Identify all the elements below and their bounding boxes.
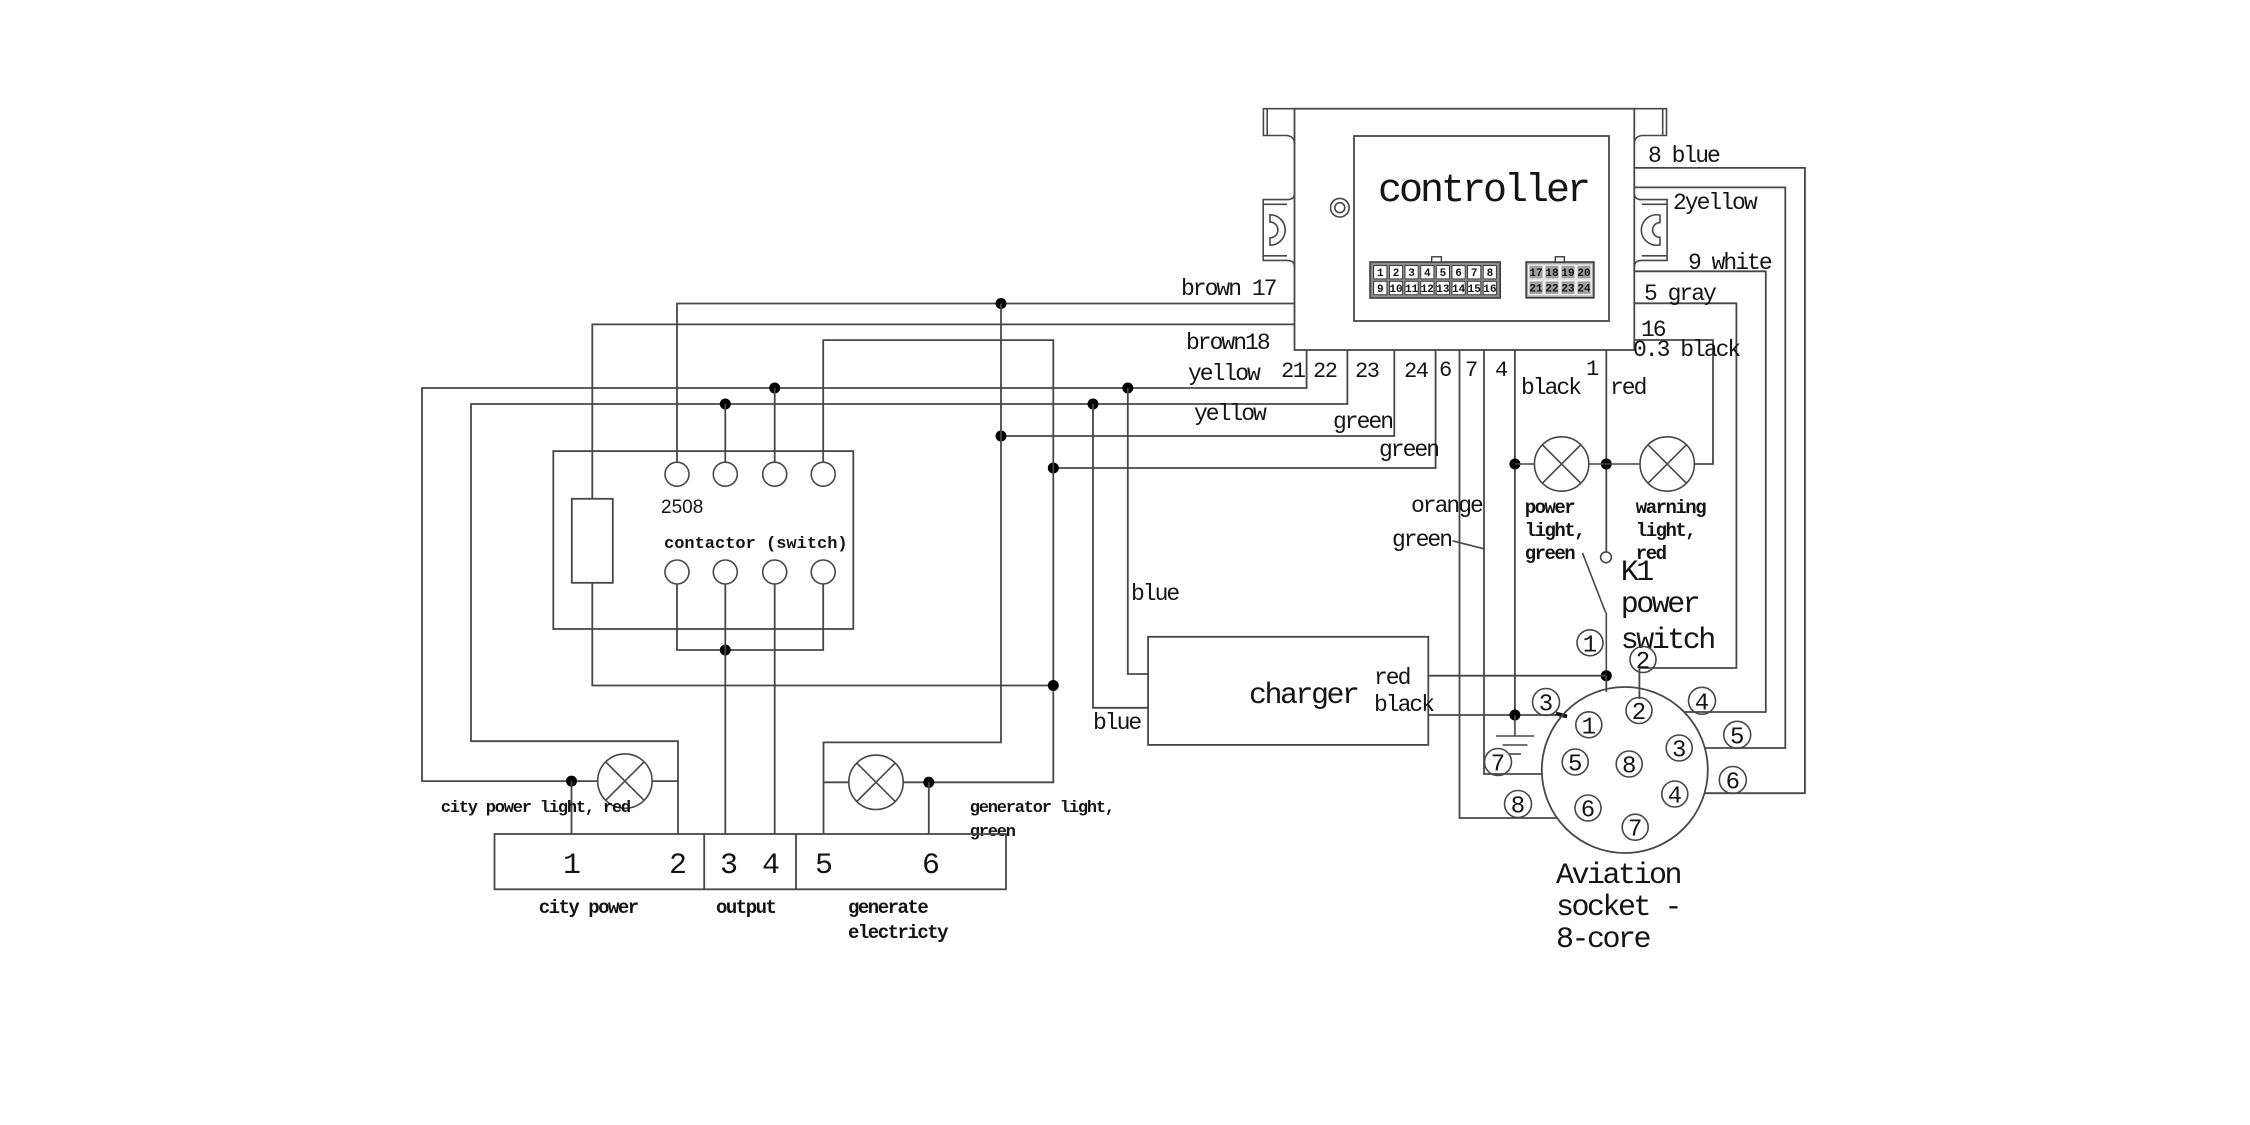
svg-text:5 gray: 5 gray <box>1644 281 1717 307</box>
wire yellow pin22 : controller to contactor c2 / terminal 2 <box>471 350 1347 834</box>
wire black pin4 : controller to ground <box>1514 350 1516 715</box>
svg-text:blue: blue <box>1131 581 1179 607</box>
svg-text:10: 10 <box>1389 284 1402 296</box>
svg-text:power: power <box>1621 588 1699 622</box>
svg-text:yellow: yellow <box>1188 361 1261 387</box>
svg-text:K1: K1 <box>1621 556 1654 590</box>
wire 9 white pin9 : controller to socket ext 4 <box>1634 271 1766 712</box>
contactor coil 2508 <box>572 499 613 583</box>
generator lamp <box>849 755 903 809</box>
svg-text:controller: controller <box>1378 169 1588 214</box>
wire 8 blue pin8 : controller to socket ext 6 <box>1634 168 1805 793</box>
svg-text:18: 18 <box>1545 268 1559 280</box>
controller mounting tab top-right <box>1634 109 1666 144</box>
svg-text:5: 5 <box>815 849 833 883</box>
svg-text:6: 6 <box>922 849 940 883</box>
wire red pin1 : controller to switch K1 <box>1605 350 1607 552</box>
svg-text:7: 7 <box>1628 817 1642 844</box>
svg-text:green: green <box>1525 543 1576 565</box>
switch terminal circled 2 <box>1630 647 1656 677</box>
svg-text:11: 11 <box>1405 284 1419 296</box>
svg-text:6: 6 <box>1726 770 1740 797</box>
wire generator lamp left branch <box>824 781 849 783</box>
junction dot green2/contactor-c4 branch <box>1048 463 1059 474</box>
svg-text:5: 5 <box>1730 724 1744 751</box>
svg-text:green: green <box>1379 437 1438 463</box>
svg-text:3: 3 <box>1408 268 1415 280</box>
svg-text:orange: orange <box>1411 493 1483 519</box>
svg-text:contactor (switch): contactor (switch) <box>664 535 848 554</box>
svg-text:generator light,: generator light, <box>970 799 1114 818</box>
junction dot green1/charger-branch <box>996 431 1007 442</box>
svg-text:6: 6 <box>1581 798 1595 825</box>
svg-text:1: 1 <box>1583 632 1597 659</box>
socket pin 5 <box>1562 749 1588 779</box>
svg-text:16: 16 <box>1483 284 1496 296</box>
wire blue2 : yellow2 junction to charger <box>1093 404 1148 708</box>
socket external circled 5 <box>1724 721 1751 751</box>
wire pin16 0.3 black : controller to warning light <box>1634 340 1713 464</box>
svg-text:7: 7 <box>1471 268 1478 280</box>
junction dot city lamp / terminal 1 <box>566 776 577 787</box>
svg-text:8: 8 <box>1487 268 1494 280</box>
svg-text:5: 5 <box>1568 752 1582 779</box>
power light lamp <box>1515 437 1589 491</box>
svg-text:3: 3 <box>720 849 738 883</box>
svg-text:1: 1 <box>1377 268 1384 280</box>
controller connector J2 pins 17-24 <box>1526 257 1594 298</box>
socket pin 4 <box>1662 781 1688 811</box>
svg-text:4: 4 <box>1495 358 1508 383</box>
wire green pin7 : controller to socket ext 7 <box>1484 350 1542 774</box>
contactor bottom contacts <box>665 560 835 584</box>
wire 5 gray pin5 : controller to switch K1 terminal 2 and socket pin 2 <box>1634 303 1736 691</box>
wire contactor c2 bottom to terminal 3 <box>724 584 726 834</box>
wire city lamp right to terminal 2 riser <box>652 780 678 782</box>
contactor top contacts <box>665 462 835 486</box>
svg-text:light,: light, <box>1525 520 1584 542</box>
junction dot yellow1/contactor c3 <box>769 383 780 394</box>
svg-text:2: 2 <box>1636 649 1650 676</box>
svg-text:yellow: yellow <box>1194 401 1267 427</box>
wire terminal 1 drop <box>571 781 573 834</box>
wire contactor bottom bridge c1-c4 <box>677 584 823 650</box>
svg-text:7: 7 <box>1491 752 1505 779</box>
socket external circled 4 <box>1689 687 1716 717</box>
svg-text:20: 20 <box>1577 268 1590 280</box>
socket external circled 3 <box>1533 689 1560 719</box>
contactor box <box>553 451 853 629</box>
junction dot brown17 / charger-branch <box>996 298 1007 309</box>
svg-text:3: 3 <box>1539 692 1553 719</box>
svg-text:21: 21 <box>1281 359 1306 384</box>
svg-text:socket -: socket - <box>1556 891 1680 925</box>
wire socket pin2 stub <box>1638 691 1640 699</box>
socket external circled 6 <box>1719 767 1746 797</box>
wire charger red output <box>1428 675 1606 677</box>
svg-text:charger: charger <box>1249 679 1358 713</box>
charger box <box>1148 637 1428 745</box>
svg-text:22: 22 <box>1545 284 1558 296</box>
terminal strip <box>495 834 1007 889</box>
svg-text:14: 14 <box>1452 284 1466 296</box>
svg-text:19: 19 <box>1561 268 1574 280</box>
svg-text:13: 13 <box>1436 284 1450 296</box>
city power lamp <box>598 754 652 808</box>
svg-text:switch: switch <box>1621 624 1715 658</box>
svg-text:1: 1 <box>1586 357 1599 382</box>
svg-text:24: 24 <box>1577 284 1591 296</box>
wire contactor c2 stub <box>724 404 726 462</box>
wire contactor c3 stub <box>774 388 776 462</box>
controller mounting tab top-left <box>1263 109 1294 144</box>
svg-text:black: black <box>1374 692 1434 718</box>
svg-text:electricty: electricty <box>848 922 949 944</box>
socket pin 8 <box>1616 751 1642 781</box>
svg-text:red: red <box>1610 375 1646 401</box>
svg-text:2: 2 <box>1393 268 1400 280</box>
wire 2 yellow pin2 : controller to socket ext 5 <box>1634 187 1785 748</box>
wire charger black output to socket <box>1428 714 1556 716</box>
svg-text:green: green <box>1333 409 1392 435</box>
svg-text:2508: 2508 <box>661 497 703 518</box>
svg-text:2yellow: 2yellow <box>1673 190 1758 216</box>
svg-text:city power: city power <box>539 897 639 919</box>
svg-text:17: 17 <box>1529 268 1542 280</box>
wire brown 18 : contactor coil top to controller <box>592 324 1294 498</box>
svg-text:output: output <box>716 897 776 919</box>
junction dot charger black / ground <box>1509 710 1520 721</box>
junction dot power light right <box>1601 459 1612 470</box>
warning light lamp <box>1640 437 1694 491</box>
svg-text:1: 1 <box>1582 714 1596 741</box>
aviation socket body <box>1542 687 1708 853</box>
svg-text:green: green <box>1392 527 1451 553</box>
socket pin 6 <box>1575 795 1601 825</box>
junction dot K1 output / charger red <box>1601 670 1612 681</box>
svg-text:generate: generate <box>848 897 928 919</box>
svg-text:red: red <box>1374 665 1410 691</box>
svg-text:brown18: brown18 <box>1186 330 1270 356</box>
wire K1 output to socket edge <box>1605 676 1607 692</box>
svg-text:23: 23 <box>1561 284 1575 296</box>
svg-text:8 blue: 8 blue <box>1648 143 1720 169</box>
svg-text:4: 4 <box>1424 268 1431 280</box>
wire yellow pin21 : controller to contactor c3 / city lamp <box>422 350 1307 781</box>
wire green pin24 <box>1053 350 1435 468</box>
controller mounting tab mid-left <box>1263 193 1294 267</box>
socket pin 1 <box>1576 712 1602 742</box>
wire blue1 : yellow1 junction to charger <box>1128 388 1148 674</box>
wire power light to warning light <box>1589 463 1640 465</box>
socket external circled 7 <box>1485 749 1512 779</box>
svg-text:brown 17: brown 17 <box>1181 276 1276 302</box>
wire brown 17 : contactor contact A1 up to controller <box>677 304 1295 463</box>
svg-text:9: 9 <box>1377 284 1384 296</box>
controller U1 outer box <box>1295 109 1635 350</box>
junction dot coil-bottom / c4 branch <box>1048 680 1059 691</box>
svg-text:6: 6 <box>1439 358 1451 383</box>
svg-text:4: 4 <box>762 849 780 883</box>
junction dot power light left <box>1509 459 1520 470</box>
svg-text:24: 24 <box>1404 359 1429 384</box>
svg-text:black: black <box>1521 375 1581 401</box>
svg-text:power: power <box>1525 497 1576 519</box>
controller connector J1 pins 1-16 <box>1370 257 1500 298</box>
svg-text:2: 2 <box>1632 700 1646 727</box>
wire generator lamp right segment <box>903 781 929 783</box>
wire contactor c3 bottom to terminal 4 <box>774 584 776 834</box>
svg-text:warning: warning <box>1636 497 1706 519</box>
junction dot yellow1/blue1 <box>1122 383 1133 394</box>
junction dot yellow2/contactor c2 <box>720 399 731 410</box>
controller mounting tab mid-right <box>1634 193 1667 267</box>
svg-text:green: green <box>970 823 1016 842</box>
svg-text:8-core: 8-core <box>1556 923 1651 957</box>
socket pin 3 <box>1666 735 1692 765</box>
controller indicator circle <box>1331 198 1350 217</box>
switch K1 <box>1583 552 1612 676</box>
junction dot yellow2/blue2 <box>1088 399 1099 410</box>
svg-text:2: 2 <box>669 849 687 883</box>
svg-text:5: 5 <box>1440 268 1447 280</box>
wire contactor c4 riser to generator branch <box>823 340 1053 782</box>
wire terminal 6 drop <box>928 782 930 834</box>
svg-text:21: 21 <box>1529 284 1543 296</box>
ground symbol <box>1496 715 1534 754</box>
svg-text:city power light, red: city power light, red <box>441 799 631 818</box>
svg-text:23: 23 <box>1355 359 1379 384</box>
wire coil bottom branch <box>592 583 1053 686</box>
svg-text:4: 4 <box>1695 690 1709 717</box>
wire green pin23 <box>1001 350 1394 436</box>
wire charger-branch x=1001 : brown17 junction to terminal 5 <box>824 304 1002 835</box>
svg-text:22: 22 <box>1313 359 1337 384</box>
socket pin 7 <box>1622 814 1648 844</box>
svg-text:light,: light, <box>1636 520 1695 542</box>
junction dot generator lamp right <box>923 777 934 788</box>
svg-text:15: 15 <box>1468 284 1482 296</box>
svg-text:blue: blue <box>1093 710 1141 736</box>
svg-text:Aviation: Aviation <box>1556 859 1681 893</box>
socket external circled 8 <box>1505 791 1532 821</box>
svg-text:4: 4 <box>1668 784 1682 811</box>
wire orange pin6 : controller to socket ext 8 <box>1460 350 1558 818</box>
leader line green pin7 <box>1453 541 1485 549</box>
svg-text:8: 8 <box>1511 794 1525 821</box>
switch terminal circled 1 <box>1577 630 1603 660</box>
junction dot bridge / c2 bottom <box>720 645 731 656</box>
svg-text:6: 6 <box>1455 268 1462 280</box>
socket pin 2 <box>1626 698 1652 728</box>
svg-text:3: 3 <box>1672 738 1686 765</box>
svg-text:1: 1 <box>563 849 581 883</box>
svg-text:0.3 black: 0.3 black <box>1633 337 1740 363</box>
svg-text:7: 7 <box>1465 358 1477 383</box>
controller inner panel <box>1354 136 1609 321</box>
svg-text:12: 12 <box>1421 284 1434 296</box>
tick at socket edge on black wire <box>1556 714 1567 717</box>
svg-text:9 white: 9 white <box>1688 250 1772 276</box>
svg-text:8: 8 <box>1622 754 1636 781</box>
